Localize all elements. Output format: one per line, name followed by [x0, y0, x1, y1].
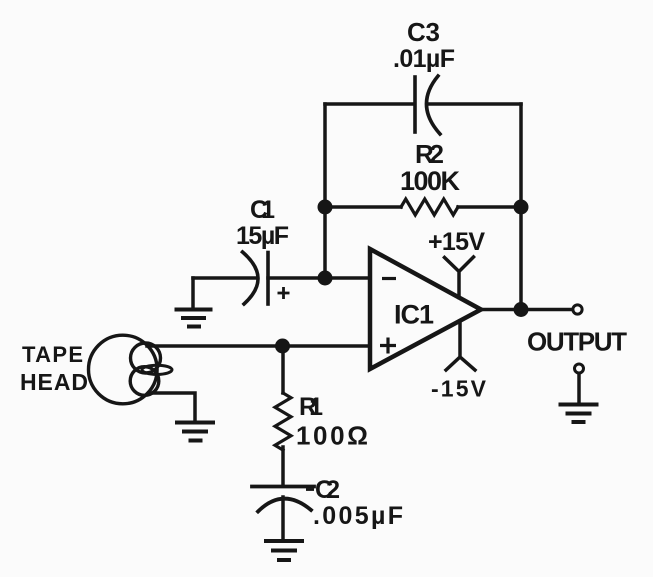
- svg-text:.01µF: .01µF: [393, 45, 455, 73]
- svg-text:.005µF: .005µF: [313, 502, 403, 530]
- svg-text:OUTPUT: OUTPUT: [527, 327, 627, 357]
- svg-text:-15V: -15V: [431, 376, 487, 402]
- svg-text:R2: R2: [415, 139, 444, 169]
- svg-text:100K: 100K: [400, 166, 461, 196]
- svg-text:15µF: 15µF: [236, 222, 289, 250]
- svg-text:TAPE: TAPE: [22, 342, 83, 367]
- svg-text:100Ω: 100Ω: [296, 421, 368, 451]
- svg-text:IC1: IC1: [394, 300, 434, 330]
- svg-text:+15V: +15V: [428, 228, 485, 256]
- svg-text:R1: R1: [299, 393, 323, 421]
- svg-text:HEAD: HEAD: [20, 369, 88, 395]
- svg-text:C1: C1: [250, 196, 275, 224]
- svg-text:C2: C2: [315, 476, 340, 504]
- svg-text:C3: C3: [407, 17, 440, 47]
